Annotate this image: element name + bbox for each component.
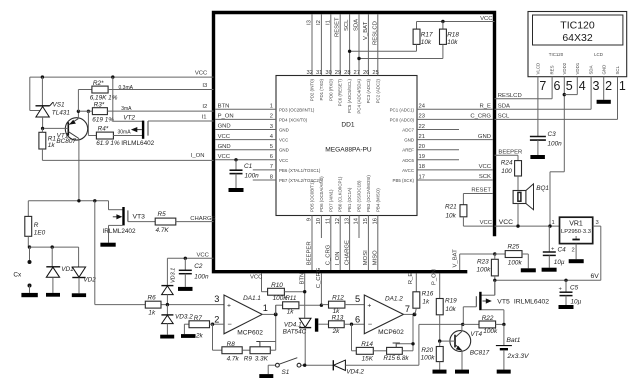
Cx terminals bbox=[13, 245, 31, 292]
svg-text:VS1: VS1 bbox=[53, 102, 66, 109]
svg-text:6,19K 1%: 6,19K 1% bbox=[90, 95, 118, 102]
svg-text:61.9 1%: 61.9 1% bbox=[96, 140, 120, 147]
svg-text:PD4 (XCK/T0): PD4 (XCK/T0) bbox=[279, 117, 308, 122]
svg-text:R: R bbox=[34, 222, 39, 229]
svg-text:0.3mA: 0.3mA bbox=[119, 85, 134, 91]
resistor R12 bbox=[321, 294, 364, 315]
svg-text:7: 7 bbox=[405, 304, 410, 314]
svg-text:25: 25 bbox=[372, 70, 378, 76]
I2 wire bbox=[107, 104, 213, 112]
emitter node dot bbox=[77, 110, 80, 113]
resistor R10 bbox=[262, 282, 305, 302]
diode VD4.1 bbox=[283, 318, 312, 365]
wire MISO pin16 bbox=[373, 216, 379, 271]
svg-text:I3: I3 bbox=[202, 83, 208, 89]
svg-text:SCK: SCK bbox=[479, 174, 491, 180]
svg-text:PD0 (RXD): PD0 (RXD) bbox=[328, 78, 333, 100]
svg-text:8: 8 bbox=[270, 174, 273, 180]
VCC line inside right bbox=[463, 220, 492, 226]
svg-text:31: 31 bbox=[316, 70, 322, 76]
output node R16/R15 bbox=[404, 313, 417, 351]
svg-text:4: 4 bbox=[579, 79, 586, 93]
svg-text:VCC: VCC bbox=[499, 219, 513, 226]
svg-text:C5: C5 bbox=[570, 285, 579, 292]
svg-text:14: 14 bbox=[354, 217, 360, 224]
svg-text:5: 5 bbox=[270, 144, 273, 150]
diode VD3.2 bbox=[161, 305, 193, 335]
svg-text:I3: I3 bbox=[307, 19, 313, 25]
svg-text:1k: 1k bbox=[287, 309, 295, 316]
svg-text:GND: GND bbox=[218, 124, 231, 130]
svg-text:Bat1: Bat1 bbox=[506, 337, 520, 344]
ground under VD2 bbox=[72, 293, 86, 297]
svg-text:C_CRG: C_CRG bbox=[316, 267, 322, 288]
resistor R3 bbox=[79, 102, 114, 124]
svg-text:20: 20 bbox=[419, 144, 425, 150]
svg-text:100k: 100k bbox=[508, 260, 523, 267]
ground under VD3.2 bbox=[160, 335, 174, 339]
node dot VS1 cathode bbox=[41, 75, 44, 78]
wire R_E pin24 bbox=[417, 104, 493, 110]
svg-text:R13: R13 bbox=[332, 315, 344, 322]
wire GND pin5 bbox=[215, 144, 276, 150]
svg-text:VD4.1: VD4.1 bbox=[284, 321, 302, 328]
svg-text:I1: I1 bbox=[325, 20, 331, 25]
transistor VT1 BC807 bbox=[44, 111, 87, 201]
svg-text:PD3 (OC2B/INT1): PD3 (OC2B/INT1) bbox=[279, 107, 315, 112]
svg-text:3: 3 bbox=[596, 220, 599, 226]
svg-text:6: 6 bbox=[554, 79, 561, 93]
svg-text:V_BAT: V_BAT bbox=[453, 249, 459, 268]
VCC rail outside bbox=[495, 219, 560, 228]
node dot R4 branch bbox=[87, 110, 90, 113]
svg-text:2: 2 bbox=[270, 114, 273, 120]
feedback path R8 R9 bbox=[213, 305, 276, 362]
svg-text:PC0 (ADC0): PC0 (ADC0) bbox=[390, 117, 415, 122]
svg-text:VT2: VT2 bbox=[123, 115, 135, 122]
svg-text:P_ON: P_ON bbox=[432, 269, 438, 285]
svg-text:VDD1: VDD1 bbox=[575, 62, 580, 74]
trimmer R9 wiper bbox=[256, 342, 275, 347]
svg-text:R16: R16 bbox=[422, 291, 434, 298]
svg-text:SDA: SDA bbox=[498, 104, 510, 110]
svg-text:I2: I2 bbox=[316, 20, 322, 25]
wire LCD pin5-pin4 bridge bbox=[563, 77, 578, 172]
svg-text:3: 3 bbox=[593, 79, 600, 93]
svg-text:30mA: 30mA bbox=[118, 129, 132, 135]
svg-text:CHARGE: CHARGE bbox=[344, 240, 350, 265]
resistor R13 bbox=[329, 315, 365, 335]
svg-text:C2: C2 bbox=[194, 263, 203, 270]
svg-text:R25: R25 bbox=[508, 244, 520, 251]
svg-text:PB4 (MISO): PB4 (MISO) bbox=[375, 188, 380, 212]
svg-text:C_CRG: C_CRG bbox=[470, 114, 491, 120]
wire LCD pin3 SDA bbox=[495, 77, 592, 110]
svg-text:PD7 (AIN1): PD7 (AIN1) bbox=[328, 189, 333, 212]
svg-text:6: 6 bbox=[355, 314, 360, 324]
resistor R1 bbox=[39, 128, 57, 160]
pin 20 stub AREF bbox=[417, 144, 459, 150]
wire I3 pin32 bbox=[307, 14, 314, 76]
svg-text:10k: 10k bbox=[446, 213, 457, 220]
capacitor C5 bbox=[559, 279, 582, 306]
VD4.2 wire up to gate node bbox=[419, 324, 463, 365]
svg-text:IRLML2402: IRLML2402 bbox=[103, 228, 136, 235]
svg-text:R18: R18 bbox=[447, 32, 459, 39]
wire I2 pin31 bbox=[316, 14, 323, 76]
svg-text:GND: GND bbox=[279, 148, 289, 153]
svg-text:5: 5 bbox=[566, 79, 573, 93]
resistor R18 bbox=[357, 20, 459, 60]
svg-text:MCP602: MCP602 bbox=[378, 329, 404, 336]
svg-text:R21: R21 bbox=[445, 204, 457, 211]
svg-text:R15: R15 bbox=[383, 355, 395, 362]
svg-text:PC2 (ADC2): PC2 (ADC2) bbox=[375, 78, 380, 103]
svg-text:10µ: 10µ bbox=[571, 299, 582, 306]
svg-text:SCL: SCL bbox=[615, 65, 620, 74]
VCC wire left bbox=[30, 70, 214, 77]
module outline box bbox=[214, 13, 495, 272]
capacitor C4 bbox=[543, 226, 566, 268]
wire VCC pin18 bbox=[417, 164, 493, 170]
svg-text:11: 11 bbox=[326, 218, 332, 224]
svg-text:1: 1 bbox=[263, 303, 268, 313]
svg-text:I_ON: I_ON bbox=[191, 153, 205, 159]
diode VD3.1 bbox=[161, 258, 176, 304]
svg-text:19: 19 bbox=[419, 154, 425, 160]
diode VD2 bbox=[72, 247, 96, 293]
wire BEEPER pin9 bbox=[307, 216, 313, 271]
svg-text:16: 16 bbox=[373, 218, 379, 224]
op-amp DA1.1 MCP602 bbox=[224, 295, 263, 337]
wire VCC pin6 bbox=[215, 154, 276, 160]
svg-text:5: 5 bbox=[355, 294, 360, 304]
ground under Bat1 bbox=[497, 370, 511, 374]
svg-text:PB3 (OC2A/MOSI): PB3 (OC2A/MOSI) bbox=[366, 175, 371, 212]
resistor R19 bbox=[432, 269, 458, 341]
wire MOSI pin15 bbox=[363, 216, 369, 271]
resistor R2 bbox=[78, 80, 117, 111]
svg-text:100n: 100n bbox=[548, 141, 563, 148]
wire RESET pin29 bbox=[335, 14, 342, 76]
svg-text:2k: 2k bbox=[332, 328, 341, 335]
svg-text:VD3.1: VD3.1 bbox=[171, 268, 177, 283]
I_ON wire bbox=[42, 153, 213, 160]
svg-text:1: 1 bbox=[270, 104, 273, 110]
BTN wire below box bbox=[299, 273, 306, 318]
svg-text:R6: R6 bbox=[148, 295, 157, 302]
svg-text:PD6 (OC0A/AIN0): PD6 (OC0A/AIN0) bbox=[319, 176, 324, 212]
svg-text:R4*: R4* bbox=[98, 126, 109, 133]
svg-text:PC6 (RESET): PC6 (RESET) bbox=[338, 78, 343, 106]
svg-text:21: 21 bbox=[419, 134, 425, 140]
LCD module HG1 TIC120 bbox=[528, 12, 627, 77]
svg-text:GND: GND bbox=[601, 65, 606, 75]
svg-text:SDA: SDA bbox=[354, 19, 360, 31]
svg-text:PC1 (ADC1): PC1 (ADC1) bbox=[390, 107, 415, 112]
svg-text:VCC: VCC bbox=[197, 252, 210, 258]
svg-text:10: 10 bbox=[316, 218, 322, 224]
svg-text:P_ON: P_ON bbox=[218, 114, 234, 120]
svg-text:VT4: VT4 bbox=[470, 331, 482, 338]
resistor R24 bbox=[501, 155, 522, 190]
svg-text:MCP602: MCP602 bbox=[237, 330, 263, 337]
svg-text:10k: 10k bbox=[447, 39, 458, 46]
svg-text:RESET: RESET bbox=[471, 188, 491, 194]
resistor R7 bbox=[184, 315, 212, 340]
svg-text:R22: R22 bbox=[482, 315, 494, 322]
svg-text:10k: 10k bbox=[445, 306, 456, 313]
svg-text:6.8k: 6.8k bbox=[397, 355, 410, 362]
wire GND pin3 bbox=[215, 124, 276, 130]
svg-text:C4: C4 bbox=[558, 247, 567, 254]
svg-text:GND: GND bbox=[218, 144, 231, 150]
op-amp DA1.2 MCP602 bbox=[364, 295, 404, 336]
svg-text:R17: R17 bbox=[421, 32, 433, 39]
svg-text:BC807: BC807 bbox=[56, 138, 76, 145]
svg-text:VD3.2: VD3.2 bbox=[175, 313, 193, 320]
ground under VT4 emitter bbox=[455, 370, 469, 374]
trimmer R15 wiper bbox=[393, 343, 413, 347]
svg-text:1: 1 bbox=[619, 79, 626, 93]
svg-text:VLCD: VLCD bbox=[536, 63, 541, 75]
svg-text:+: + bbox=[367, 302, 371, 309]
ground under R7 bbox=[181, 334, 196, 338]
svg-text:AREF: AREF bbox=[402, 148, 414, 153]
pin 10 stub bbox=[316, 216, 322, 239]
svg-text:VCC: VCC bbox=[195, 70, 208, 76]
svg-text:4.7K: 4.7K bbox=[156, 227, 170, 234]
svg-text:3.3K: 3.3K bbox=[255, 355, 269, 362]
svg-text:3mA: 3mA bbox=[121, 106, 132, 112]
wire LCD pin6 RESLCD bbox=[495, 77, 553, 99]
svg-text:2k: 2k bbox=[195, 333, 204, 340]
svg-text:DD1: DD1 bbox=[341, 122, 355, 129]
resistor R23 bbox=[477, 254, 499, 295]
svg-text:VCC: VCC bbox=[480, 220, 493, 226]
svg-text:PC3 (ADC3): PC3 (ADC3) bbox=[366, 78, 371, 103]
svg-text:1k: 1k bbox=[48, 142, 56, 149]
ground under S1 bbox=[259, 374, 273, 378]
svg-text:VCC: VCC bbox=[279, 138, 288, 143]
wire SCK pin17 bbox=[417, 174, 493, 180]
svg-text:R10: R10 bbox=[271, 282, 283, 289]
svg-text:R_E: R_E bbox=[408, 273, 414, 285]
wire C_CRG pin23 bbox=[417, 114, 493, 120]
svg-text:VCC: VCC bbox=[279, 158, 288, 163]
BEEPER wire bbox=[495, 149, 523, 155]
svg-text:I_ON: I_ON bbox=[335, 252, 341, 266]
ground under VD1 bbox=[46, 293, 60, 297]
svg-text:29: 29 bbox=[335, 70, 341, 76]
voltage regulator VR1 LP2950 bbox=[552, 217, 599, 253]
svg-text:100: 100 bbox=[501, 168, 512, 175]
svg-text:7: 7 bbox=[270, 164, 273, 170]
wire V_BAT pin26 bbox=[363, 14, 370, 76]
wire C_CRG pin11 bbox=[326, 216, 332, 271]
svg-text:100k: 100k bbox=[421, 355, 436, 362]
svg-text:100n: 100n bbox=[245, 173, 260, 180]
pin 7 stub bbox=[253, 164, 276, 170]
ground under Cx bbox=[21, 293, 37, 297]
S1 to BTN junction bbox=[301, 364, 333, 367]
wire CHARGE pin13 bbox=[344, 216, 350, 271]
svg-text:C3: C3 bbox=[548, 131, 557, 138]
svg-text:BAT54C: BAT54C bbox=[283, 328, 307, 335]
svg-text:RESET: RESET bbox=[335, 17, 341, 37]
svg-text:LP2950·3.3: LP2950·3.3 bbox=[561, 229, 591, 235]
svg-text:R_E: R_E bbox=[480, 104, 492, 110]
svg-text:26: 26 bbox=[363, 70, 369, 76]
svg-text:VT3: VT3 bbox=[133, 213, 146, 220]
svg-text:MOSI: MOSI bbox=[363, 250, 369, 265]
svg-text:2x3.3V: 2x3.3V bbox=[506, 353, 530, 360]
node dot VT2 drain feed bbox=[111, 75, 114, 78]
I3 wire bbox=[108, 83, 213, 91]
Cx node wire bbox=[28, 199, 108, 202]
ground under C5 bbox=[559, 305, 574, 309]
switch S1 bbox=[268, 358, 301, 376]
diode VD4.2 bbox=[333, 360, 419, 376]
6V output line bbox=[495, 273, 601, 281]
svg-text:GND: GND bbox=[279, 128, 289, 133]
svg-text:18: 18 bbox=[419, 164, 425, 170]
svg-text:PD5 (OC0B/T1): PD5 (OC0B/T1) bbox=[310, 180, 315, 212]
transistor VT5 IRLML6402 bbox=[463, 280, 549, 324]
svg-text:IRLML6402: IRLML6402 bbox=[514, 298, 549, 305]
svg-text:4.7k: 4.7k bbox=[227, 355, 240, 362]
svg-text:RES: RES bbox=[550, 65, 555, 74]
resistor R4 bbox=[88, 111, 142, 147]
sense wire from Cx node down bbox=[94, 201, 96, 305]
svg-text:VCC: VCC bbox=[218, 154, 231, 160]
pin 14 stub bbox=[354, 216, 360, 239]
battery Bat1 bbox=[496, 324, 530, 369]
ground under R25 bbox=[521, 268, 536, 272]
svg-text:BTN: BTN bbox=[218, 104, 230, 110]
svg-text:S1: S1 bbox=[282, 369, 290, 376]
V_BAT node dot bbox=[493, 252, 496, 255]
wire LCD pin5 to VCC rail bbox=[550, 172, 564, 226]
CHARGE wire bbox=[176, 216, 216, 222]
svg-text:R9: R9 bbox=[244, 355, 253, 362]
svg-text:+: + bbox=[227, 302, 231, 309]
svg-text:DA1.2: DA1.2 bbox=[385, 296, 403, 303]
svg-text:GND: GND bbox=[478, 134, 491, 140]
svg-text:PD1 (TXD): PD1 (TXD) bbox=[319, 78, 324, 100]
svg-text:VCC: VCC bbox=[479, 164, 492, 170]
svg-text:PB2 (SS/OC1B): PB2 (SS/OC1B) bbox=[357, 180, 362, 212]
svg-text:7: 7 bbox=[539, 79, 546, 93]
svg-text:3: 3 bbox=[270, 124, 273, 130]
svg-text:6: 6 bbox=[270, 154, 273, 160]
svg-text:LCD: LCD bbox=[594, 52, 603, 57]
svg-text:PB6 (XTAL1/TOSC1): PB6 (XTAL1/TOSC1) bbox=[279, 168, 321, 173]
svg-text:PD2 (INT0): PD2 (INT0) bbox=[310, 78, 315, 101]
wire SDA pin27 bbox=[354, 14, 361, 76]
svg-text:R3*: R3* bbox=[94, 102, 105, 109]
svg-text:12: 12 bbox=[335, 218, 341, 224]
svg-text:100k: 100k bbox=[477, 267, 492, 274]
svg-text:9: 9 bbox=[307, 218, 313, 221]
svg-text:R5: R5 bbox=[158, 211, 167, 218]
svg-text:1k: 1k bbox=[148, 310, 156, 317]
svg-text:C_CRG: C_CRG bbox=[326, 244, 332, 265]
svg-text:2: 2 bbox=[572, 248, 575, 254]
svg-text:BEEPER: BEEPER bbox=[498, 149, 522, 155]
svg-text:VD4.2: VD4.2 bbox=[346, 369, 364, 376]
resistor R25 bbox=[495, 244, 529, 269]
svg-text:BC817: BC817 bbox=[470, 350, 490, 357]
ground under C2 bbox=[178, 287, 193, 291]
svg-text:BEEPER: BEEPER bbox=[307, 241, 313, 265]
svg-text:10k: 10k bbox=[421, 39, 432, 46]
VR1 pin2 ground bbox=[569, 244, 584, 264]
svg-text:BTN: BTN bbox=[299, 273, 305, 285]
VCC branch line to box bbox=[167, 252, 213, 260]
transistor VT2 IRLML6402 bbox=[113, 77, 214, 147]
capacitor C3 bbox=[530, 131, 562, 155]
svg-text:PB5 (SCK): PB5 (SCK) bbox=[393, 178, 415, 183]
wire P_ON pin2 bbox=[215, 114, 276, 120]
svg-text:RESLCD: RESLCD bbox=[498, 93, 522, 99]
svg-text:ADC7: ADC7 bbox=[402, 128, 414, 133]
resistor R20 bbox=[421, 341, 444, 370]
svg-text:13: 13 bbox=[344, 218, 350, 224]
DA1.1 output node bbox=[262, 313, 277, 317]
svg-text:TL431: TL431 bbox=[52, 110, 71, 117]
capacitor C2 bbox=[179, 258, 209, 287]
ground under VT3 bbox=[100, 243, 115, 247]
svg-text:VDD2: VDD2 bbox=[562, 62, 567, 74]
wire I1 pin30 bbox=[325, 14, 332, 76]
wire VS1 ref branch bbox=[30, 77, 40, 110]
resistor R22 bbox=[461, 315, 506, 335]
pin 19 stub ADC6 bbox=[417, 154, 459, 160]
svg-text:PC5 (ADC5/SCL): PC5 (ADC5/SCL) bbox=[347, 78, 352, 113]
transistor VT4 BC817 bbox=[440, 324, 490, 369]
svg-text:R20: R20 bbox=[421, 347, 433, 354]
svg-text:VCC: VCC bbox=[480, 16, 493, 22]
svg-text:PB0 (CLKO/ICP1): PB0 (CLKO/ICP1) bbox=[338, 176, 343, 212]
capacitor C1 bbox=[230, 158, 260, 188]
svg-text:I2: I2 bbox=[202, 104, 207, 110]
svg-text:R2*: R2* bbox=[93, 80, 104, 87]
wire RESLCD pin25 bbox=[372, 14, 379, 76]
R11 output branch bbox=[276, 305, 283, 314]
svg-text:100n: 100n bbox=[194, 274, 209, 281]
svg-text:TIC120: TIC120 bbox=[549, 52, 564, 57]
svg-text:6V: 6V bbox=[591, 273, 600, 280]
svg-text:17: 17 bbox=[419, 174, 425, 180]
V_BAT wire at module edge bbox=[453, 249, 495, 270]
resistor R 1E0 bbox=[25, 201, 46, 247]
resistor R21 bbox=[445, 194, 467, 227]
common cathode bar bbox=[315, 318, 329, 331]
svg-text:MISO: MISO bbox=[373, 250, 379, 265]
svg-text:BQ1: BQ1 bbox=[536, 185, 549, 192]
svg-text:−: − bbox=[228, 320, 233, 329]
svg-text:IRLML6402: IRLML6402 bbox=[121, 140, 154, 147]
svg-text:C1: C1 bbox=[244, 163, 253, 170]
svg-text:R8: R8 bbox=[227, 341, 236, 348]
svg-text:R11: R11 bbox=[285, 295, 297, 302]
svg-text:VR1: VR1 bbox=[569, 221, 583, 228]
svg-text:PB7 (XTAL2/TOSC2): PB7 (XTAL2/TOSC2) bbox=[279, 178, 321, 183]
wire LCD pin7 to C3 bbox=[537, 77, 539, 137]
VCC stub to R10 bbox=[250, 274, 263, 292]
svg-text:1E0: 1E0 bbox=[34, 229, 46, 236]
